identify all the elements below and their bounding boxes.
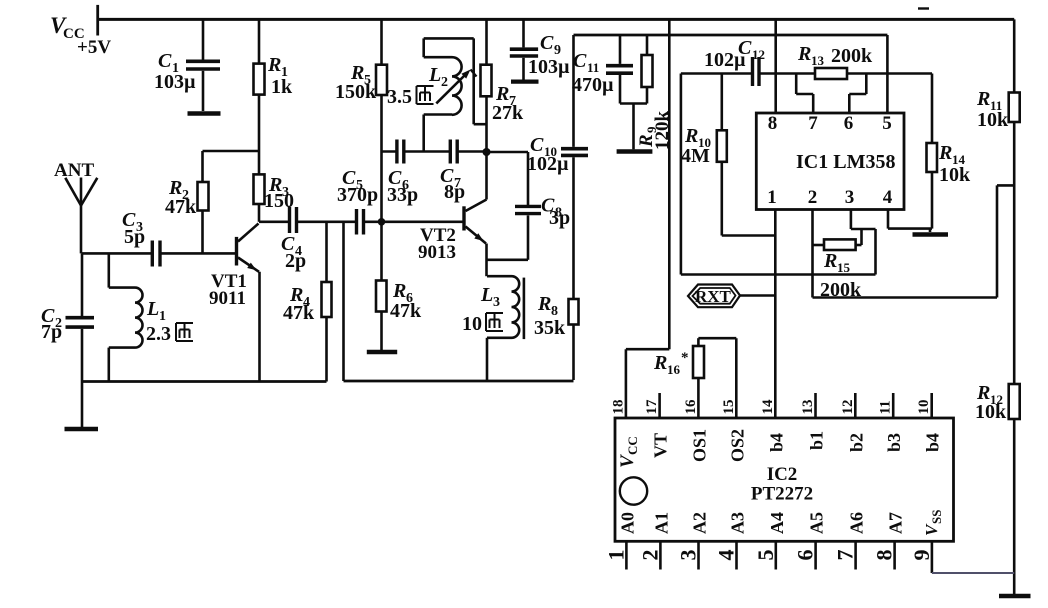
svg-text:CC: CC: [625, 436, 640, 455]
svg-text:R: R: [392, 280, 406, 302]
label R6 47k: [390, 280, 422, 322]
svg-text:102µ: 102µ: [704, 49, 746, 71]
svg-text:1: 1: [159, 309, 166, 324]
IC2 pin1 indicator circle: [620, 477, 647, 504]
pin 3 wire jog to R15: [851, 210, 876, 246]
wire second rail (pin5): [574, 34, 888, 37]
svg-text:R: R: [823, 250, 837, 272]
svg-text:R: R: [267, 54, 281, 76]
capacitor C2: [66, 253, 95, 381]
capacitor C7: [450, 140, 457, 164]
IC2 internal bottom labels rotated: [617, 510, 944, 536]
label R10 4M: [681, 125, 711, 167]
capacitor C8: [515, 206, 541, 259]
svg-text:PT2272: PT2272: [751, 484, 813, 505]
wire collector node to C8 branch: [487, 152, 529, 206]
pin 10 stub: [930, 393, 933, 418]
svg-text:A3: A3: [728, 512, 748, 534]
resistor R6: [376, 222, 387, 350]
pin 6 stub bottom: [814, 541, 817, 569]
svg-text:5: 5: [753, 550, 778, 561]
svg-text:7: 7: [833, 550, 858, 561]
svg-text:R: R: [938, 142, 952, 164]
svg-text:OS1: OS1: [689, 429, 709, 462]
label C1 103u: [154, 50, 196, 93]
op-amp IC1 LM358 box: [756, 113, 904, 210]
pin 9 wire to ground: [932, 541, 1014, 573]
svg-text:47k: 47k: [390, 300, 422, 322]
svg-text:OS2: OS2: [727, 429, 747, 462]
wire C12 loop left vertical: [681, 74, 876, 275]
transistor VT1: [237, 224, 260, 382]
resistor R2: [198, 151, 209, 253]
resistor R14: [927, 74, 938, 229]
pin 5 stub bottom: [774, 541, 777, 569]
svg-text:470µ: 470µ: [572, 74, 614, 96]
svg-text:200k: 200k: [820, 279, 862, 301]
pin numbers IC2 bottom rotated: [603, 550, 934, 561]
pin 4 wire to ground: [888, 210, 932, 233]
svg-text:R: R: [684, 125, 698, 147]
label R14 10k: [938, 142, 971, 186]
svg-text:35k: 35k: [534, 317, 566, 339]
ground (R6): [367, 350, 397, 354]
ground (C11/R9): [617, 149, 653, 153]
svg-text:10: 10: [916, 400, 932, 415]
label RXT: [695, 287, 732, 306]
wire emitter to C8: [487, 258, 528, 261]
capacitor C6: [397, 140, 404, 164]
pin numbers IC1 top: [768, 113, 892, 134]
capacitor C12: [753, 57, 760, 86]
svg-text:6: 6: [793, 550, 818, 561]
ground (C1): [188, 111, 221, 115]
pin 6 wire jog: [849, 74, 866, 114]
svg-text:2: 2: [441, 75, 448, 90]
svg-text:A0: A0: [617, 512, 637, 534]
capacitor C1: [186, 19, 220, 111]
svg-text:V: V: [617, 454, 638, 468]
capacitor C4: [290, 207, 297, 233]
svg-text:33p: 33p: [387, 184, 418, 206]
svg-text:2.3: 2.3: [146, 323, 171, 345]
svg-text:b3: b3: [884, 433, 904, 452]
label C5 370p: [337, 167, 378, 206]
resistor R9: [620, 35, 653, 149]
svg-text:A1: A1: [651, 512, 671, 534]
pin numbers IC2 top rotated: [610, 399, 932, 415]
svg-text:103µ: 103µ: [154, 71, 196, 93]
svg-text:7p: 7p: [41, 321, 62, 343]
svg-text:b4: b4: [923, 433, 943, 452]
svg-text:L: L: [146, 298, 159, 320]
resistor R15: [813, 239, 862, 250]
svg-text:SS: SS: [929, 510, 944, 524]
label IC2 PT2272: [751, 464, 813, 505]
svg-text:16: 16: [683, 399, 699, 415]
pin 1 wire down to IC2 pin 14: [774, 210, 777, 419]
svg-text:10k: 10k: [975, 401, 1007, 423]
pin 3 stub bottom: [697, 541, 700, 569]
label VT2 9013: [418, 225, 456, 263]
svg-text:b4: b4: [767, 433, 787, 452]
svg-text:3.5: 3.5: [387, 86, 412, 108]
svg-text:5p: 5p: [124, 226, 145, 248]
svg-text:C: C: [573, 50, 587, 72]
svg-text:10k: 10k: [939, 164, 971, 186]
capacitor C9: [510, 19, 538, 79]
svg-text:9013: 9013: [418, 242, 456, 263]
node junction dot C5/R5/R6/base: [378, 218, 386, 226]
label ANT: [54, 160, 94, 181]
label R2 47k: [165, 177, 197, 218]
label VT1 9011: [209, 271, 247, 309]
svg-text:3: 3: [493, 295, 500, 310]
label R12 10k: [975, 382, 1007, 423]
svg-text:11: 11: [878, 400, 894, 414]
pin 12 stub: [854, 393, 857, 418]
wire C6/C7 row: [382, 150, 487, 153]
label R9 120k rotated: [636, 111, 673, 151]
label R1 1k: [267, 54, 293, 98]
label R16*: [653, 350, 689, 377]
svg-text:15: 15: [837, 260, 851, 275]
resistor R13: [815, 68, 847, 79]
svg-text:6: 6: [844, 113, 854, 134]
wire VT1 stage bottom rail: [82, 380, 327, 383]
resistor R1: [254, 19, 265, 151]
pin 8 wire: [774, 19, 777, 113]
resistor R11: [1009, 19, 1020, 384]
pin 7 wire jog: [796, 74, 813, 114]
antenna: [65, 178, 97, 254]
ground (bottom right): [999, 594, 1031, 598]
label R5 150k: [335, 62, 377, 103]
svg-text:L: L: [428, 64, 441, 86]
label R13 200k: [797, 43, 873, 68]
resistor R5: [376, 19, 387, 221]
svg-text:14: 14: [760, 399, 776, 415]
svg-text:R: R: [537, 293, 551, 315]
svg-text:b2: b2: [846, 433, 866, 452]
label L2 3.5turns: [387, 64, 448, 108]
svg-text:13: 13: [811, 53, 825, 68]
ground (pin4/R14): [913, 232, 949, 236]
resistor R8: [569, 157, 579, 380]
inductor L2 with adjustable arrow: [424, 38, 487, 151]
svg-text:12: 12: [752, 47, 765, 62]
wire left edge of VT2 stage: [342, 222, 345, 381]
resistor R3: [254, 151, 265, 222]
svg-text:R: R: [797, 43, 811, 65]
resistor R7: [481, 19, 492, 152]
wire top rail Vcc: [98, 18, 1015, 21]
svg-text:13: 13: [800, 400, 816, 415]
svg-text:150k: 150k: [335, 81, 377, 103]
svg-text:A4: A4: [767, 512, 787, 534]
svg-text:C: C: [158, 50, 172, 72]
svg-text:8: 8: [872, 550, 897, 561]
svg-text:200k: 200k: [831, 45, 873, 67]
svg-text:8: 8: [768, 113, 778, 134]
label R4 47k: [283, 284, 315, 324]
resistor R16: [693, 338, 736, 418]
ground (C9): [511, 79, 539, 83]
pin 5 wire: [886, 35, 889, 113]
node Vcc tick: [96, 5, 99, 36]
svg-text:3p: 3p: [549, 207, 570, 229]
label C2 7p: [41, 305, 62, 343]
svg-text:1: 1: [603, 550, 628, 561]
scan dash artifact: [918, 7, 929, 9]
label R8 35k: [534, 293, 566, 339]
svg-text:18: 18: [610, 400, 626, 415]
svg-text:10: 10: [462, 313, 482, 335]
svg-text:3: 3: [676, 550, 701, 561]
capacitor C10: [561, 35, 588, 155]
label R11 10k: [976, 88, 1009, 131]
label C7 8p: [440, 165, 465, 203]
svg-text:C: C: [540, 32, 554, 54]
ground (C2): [65, 382, 99, 430]
pin 13 stub: [814, 393, 817, 418]
svg-text:L: L: [480, 284, 493, 306]
node VCC label: [50, 13, 111, 58]
decoder IC2 PT2272 box: [615, 418, 954, 541]
svg-text:8p: 8p: [444, 181, 465, 203]
svg-text:A6: A6: [847, 512, 867, 534]
IC2 internal top labels rotated: [617, 429, 943, 468]
svg-text:7: 7: [808, 113, 818, 134]
pin 2 stub bottom: [659, 541, 662, 569]
svg-text:370p: 370p: [337, 184, 378, 206]
svg-text:1k: 1k: [271, 76, 293, 98]
svg-text:4: 4: [883, 187, 893, 208]
capacitor C5: [357, 209, 364, 235]
wire collector node to C4/C5: [259, 221, 463, 224]
resistor R12: [1009, 384, 1020, 594]
svg-text:ANT: ANT: [54, 160, 94, 181]
svg-text:R: R: [653, 352, 667, 374]
svg-text:47k: 47k: [165, 196, 197, 218]
svg-text:4: 4: [714, 550, 739, 561]
pin 1 stub bottom: [625, 541, 628, 569]
inductor L1: [109, 253, 143, 381]
svg-text:9: 9: [909, 550, 934, 561]
label C10 102u: [527, 134, 569, 175]
inductor L3: [487, 276, 524, 381]
pin 17 stub: [658, 393, 661, 418]
svg-text:R: R: [976, 88, 990, 110]
svg-text:A7: A7: [886, 512, 906, 534]
label L1 2.3turns: [146, 298, 171, 345]
svg-text:103µ: 103µ: [528, 56, 570, 78]
resistor R4: [322, 222, 332, 382]
svg-text:17: 17: [644, 399, 660, 415]
label R7 27k: [492, 83, 524, 124]
label C8 3p: [541, 195, 570, 230]
label IC1 LM358: [796, 151, 895, 173]
label C12 102u: [704, 37, 765, 71]
label L3 10turns: [462, 284, 500, 335]
pin 11 stub: [892, 393, 895, 418]
node RXT: [688, 285, 775, 308]
transistor VT2: [464, 152, 487, 276]
label C3 5p: [122, 209, 145, 248]
wire R1 bottom to R2 branch: [203, 150, 260, 153]
svg-text:15: 15: [721, 400, 737, 415]
pin 4 stub bottom: [735, 541, 738, 569]
svg-text:IC2: IC2: [767, 464, 798, 485]
svg-text:IC1 LM358: IC1 LM358: [796, 151, 895, 173]
wire VT1 base: [82, 252, 235, 255]
svg-text:47k: 47k: [283, 302, 315, 324]
svg-text:+5V: +5V: [77, 37, 111, 58]
pin numbers IC1 bottom: [767, 187, 893, 208]
svg-text:2p: 2p: [285, 250, 306, 272]
arrow of L2: [436, 70, 476, 104]
resistor R10: [717, 74, 776, 236]
label C6 33p: [387, 167, 418, 206]
svg-text:12: 12: [840, 400, 856, 415]
svg-text:9011: 9011: [209, 288, 246, 309]
svg-text:1: 1: [767, 187, 777, 208]
node junction dot collector VT2: [483, 148, 491, 156]
svg-text:16: 16: [667, 362, 681, 377]
pin 8 stub bottom: [893, 541, 896, 569]
svg-text:RXT: RXT: [695, 287, 732, 306]
svg-text:27k: 27k: [492, 102, 524, 124]
svg-text:A2: A2: [690, 512, 710, 534]
wire C12/R13 row: [681, 72, 932, 75]
label R15 200k: [820, 250, 862, 301]
svg-text:*: *: [681, 350, 689, 366]
svg-text:10k: 10k: [977, 109, 1009, 131]
pin 2 wire: [813, 185, 1015, 297]
wire VT2 stage bottom rail: [344, 380, 574, 383]
svg-text:4M: 4M: [681, 145, 710, 167]
capacitor C11: [606, 35, 633, 104]
pin 7 stub bottom: [854, 541, 857, 569]
svg-text:A5: A5: [807, 512, 827, 534]
label C4 2p: [281, 233, 306, 272]
svg-text:5: 5: [882, 113, 892, 134]
svg-text:102µ: 102µ: [527, 153, 569, 175]
svg-text:VT: VT: [651, 433, 671, 458]
svg-text:2: 2: [637, 550, 662, 561]
label C11 470u: [572, 50, 614, 96]
label R3 150: [264, 174, 294, 212]
capacitor C3: [152, 241, 160, 267]
svg-text:3: 3: [845, 187, 855, 208]
label C9 103u: [528, 32, 570, 78]
svg-text:2: 2: [808, 187, 818, 208]
wire Vcc drop to IC2 pin18: [626, 19, 669, 418]
svg-text:11: 11: [587, 60, 599, 75]
svg-text:b1: b1: [807, 431, 827, 450]
